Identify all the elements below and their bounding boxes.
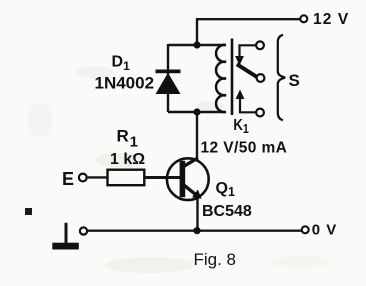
transistor Q1 emitter stroke (184, 185, 197, 195)
relay coil K1 (216, 45, 226, 112)
relay contact top circle (256, 41, 264, 49)
svg-text:Fig. 8: Fig. 8 (194, 250, 237, 269)
svg-text:1 kΩ: 1 kΩ (110, 151, 145, 168)
resistor R1 body (108, 170, 145, 186)
wire +12V top rail (197, 19, 300, 45)
wire input E to resistor (88, 176, 108, 178)
svg-text:S: S (289, 71, 300, 90)
transistor Q1 circle (167, 158, 209, 200)
wire resistor to base (144, 176, 180, 179)
relay contact top arrow (down) (235, 56, 244, 66)
relay contact bottom wire (240, 99, 256, 113)
diode D1 triangle (156, 73, 181, 94)
transistor Q1 collector stroke (184, 158, 198, 166)
wire emitter vertical (196, 197, 198, 231)
terminal 0V left (80, 227, 87, 234)
wire bottom horizontal (diode/coil bottom) (168, 111, 226, 113)
terminal +12V (300, 15, 307, 22)
node junction dot emitter/0V (193, 227, 200, 234)
brace S (278, 35, 285, 120)
relay contact bottom arrow (up) (236, 90, 245, 100)
relay contact bottom circle (256, 109, 264, 117)
relay contact top wire (240, 45, 257, 56)
ground bar (52, 243, 79, 250)
wire top horizontal (diode/coil top) (168, 44, 226, 46)
scan artifact blob (25, 208, 32, 215)
wire 0V bottom rail (88, 229, 302, 231)
svg-text:1N4002: 1N4002 (95, 73, 155, 92)
relay contact middle circle (257, 74, 265, 82)
diode D1 (1N4002) cathode bar (156, 70, 181, 74)
svg-text:12 V/50 mA: 12 V/50 mA (201, 140, 288, 157)
ground stem (65, 223, 68, 243)
svg-text:BC548: BC548 (202, 203, 252, 220)
relay contact blade (237, 64, 259, 78)
terminal E (79, 174, 87, 182)
terminal 0V right (302, 226, 309, 233)
node junction dot collector (193, 108, 200, 115)
transistor Q1 base bar (180, 161, 186, 197)
wire diode branch vertical (167, 44, 169, 112)
svg-text:0 V: 0 V (312, 222, 338, 239)
scan noise (decorative) (28, 66, 330, 273)
svg-text:E: E (62, 169, 74, 189)
wire collector vertical (196, 112, 198, 158)
relay bar (231, 39, 234, 116)
svg-text:12 V: 12 V (313, 11, 349, 28)
node junction dot top (193, 41, 200, 48)
transistor Q1 emitter arrowhead (192, 190, 202, 199)
